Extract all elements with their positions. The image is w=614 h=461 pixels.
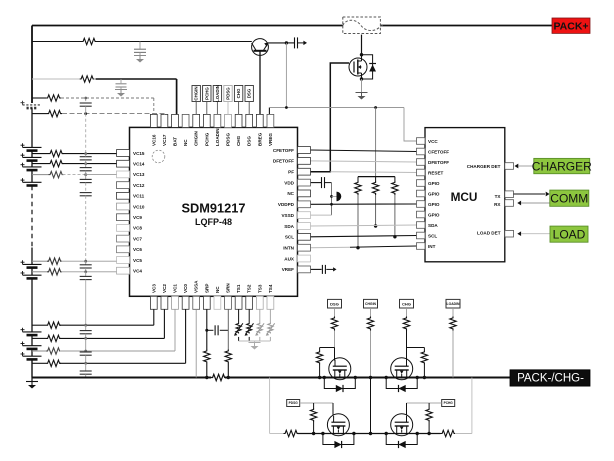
svg-text:PF: PF [288,170,294,175]
junction VREG/emitter drop [285,106,288,109]
junction INT pull-up [356,246,359,249]
battery cell B8 [23,332,42,335]
pin stub CHARGER DET [505,163,514,170]
transistor Q3 DSG FET [329,358,351,380]
wire pull-up bus [358,176,395,178]
pin INTN [298,244,311,251]
svg-text:PACK-/CHG-: PACK-/CHG- [517,373,584,385]
svg-text:LOAD DET: LOAD DET [477,230,501,235]
junction FET source [360,77,363,80]
wire to ground [31,378,33,382]
pin MCU VCC [417,138,426,145]
wire CHGIN label [370,308,372,317]
wire BREG supply rail [32,41,82,43]
junction test point [330,195,333,198]
net label CHGIN CHGIN [364,299,378,308]
thermistor RT4 [266,323,275,336]
transistor Q4 CHG FET [391,358,413,380]
wire CHARGER to MCU [518,165,534,167]
wire VDD pin [311,182,322,184]
svg-text:CFETOFF: CFETOFF [273,148,294,153]
wire SRP [206,309,208,349]
wire PACK- rail segment [32,377,211,379]
junction R29/lower rail [427,432,430,435]
wire up to VC0 pin [185,309,187,363]
wire [85,171,87,175]
thermistor RT3 [255,323,264,336]
junction cap column / VC17 [84,112,87,115]
wire SCL to MCU [311,236,417,237]
resistor R24 gate-source [421,351,427,365]
wire VC13 tap [32,174,49,176]
pin TS1 [235,296,242,309]
wire VC3 row [60,324,154,326]
wire LOADIN to rail [452,331,454,378]
wire cap column dashed [85,196,87,261]
wire to VC17 pin [163,113,165,116]
wire VC16 dashed [61,97,154,99]
node LOAD terminal [550,226,588,242]
svg-text:TS1: TS1 [236,284,241,293]
wire R18 to rail [206,364,208,378]
svg-text:GPIO: GPIO [428,202,440,207]
arrow test point VREG [303,41,307,45]
wire bypass riser right [471,378,473,434]
junction cap column / VC13 [84,173,87,176]
wire [455,433,472,435]
capacitor C5 BAT [116,84,127,87]
pin CFETOFF [298,147,311,154]
wire [85,355,87,363]
arrow into LOAD DET [517,231,521,236]
wire VC2 tap [32,337,46,339]
wire VREG distribution [269,107,404,109]
wire Q1 emitter to VREG node [268,42,286,44]
svg-text:VC16: VC16 [151,134,156,146]
pin LOADIN [214,114,221,127]
svg-text:VC3: VC3 [151,284,156,293]
pin VC7 [117,235,130,242]
pin VC0 [182,296,189,309]
junction FET drain / fuse [360,53,363,56]
wire C4 out [326,268,333,270]
svg-text:DSG: DSG [247,88,252,98]
net label CHG CHG [400,299,414,308]
ground under C5 [115,90,127,97]
wire VC4 to pin [61,271,117,273]
pin NC [182,114,189,127]
pin PF [298,168,311,175]
net label PDSG PDSG [287,400,300,407]
node COMM terminal [550,190,589,206]
resistor R27 precharge [441,430,456,436]
junction diode/lower rail [352,432,355,435]
svg-text:PCHG: PCHG [444,401,454,405]
wire stack segment [31,151,33,158]
pin MCU INT [417,243,426,250]
wire TS1 bottom [238,337,240,341]
wire VC14 tap [32,163,49,165]
wire INTN to MCU INT (gray) [311,246,351,249]
wire FET source to ground [361,79,363,92]
wire stack segment [31,161,33,167]
pin VC15 [117,150,130,157]
wire Q1 base to BREG pin [259,51,261,115]
pin VC14 [117,160,130,167]
body diode Q3 [324,378,355,393]
pin SRP [203,296,210,309]
wire thermistor common [239,340,271,342]
wire TS2 bottom [248,337,250,341]
svg-text:VCC: VCC [428,139,438,144]
wire up to VC2 pin [163,309,165,338]
wire to R29 [428,403,430,408]
pin SRN [225,296,232,309]
junction SRP/rail [205,376,208,379]
junction SRP/C16 [205,329,208,332]
ground battery negative [26,382,38,389]
svg-text:DFETOFF: DFETOFF [273,159,294,164]
resistor R11 VC5 [47,258,62,264]
svg-text:CHGIN: CHGIN [194,131,199,146]
net label PCHG PCHG [442,400,455,407]
svg-text:VC4: VC4 [133,269,142,274]
svg-text:LQFP-48: LQFP-48 [195,217,232,227]
svg-text:CHG: CHG [236,135,241,146]
pin stub LOAD DET [505,230,514,237]
wire R28 to lower rail [313,422,315,434]
wire [85,363,87,371]
wire VC0 row [60,362,186,364]
svg-text:VDD: VDD [284,180,294,185]
pin VC13 [117,171,130,178]
junction VDDPD row [330,203,333,206]
svg-text:VC9: VC9 [133,215,142,220]
wire up to VC3 pin [153,309,155,325]
wire LOADIN label to pin [216,102,218,115]
svg-text:LOADIN: LOADIN [447,302,461,306]
capacitor C15 balance [80,371,92,374]
pin MCU GPIO [417,211,426,218]
svg-text:TX: TX [495,194,502,199]
ground under C1 [134,56,146,63]
pin MCU SDA [417,222,426,229]
pin MCU CFETOFF [417,148,426,155]
pin SDA [298,223,311,230]
svg-text:BREG: BREG [257,132,262,146]
junction diode/lower rail [321,432,324,435]
pin VDD [298,179,311,186]
capacitor C11 balance [80,265,92,268]
wire lower rail [298,433,441,435]
wire gate to FET2 [406,331,408,361]
svg-text:AUX: AUX [284,256,295,261]
node CHARGER terminal [532,158,592,173]
svg-text:SDA: SDA [428,223,438,228]
capacitor C7 balance [80,157,92,160]
pin MCU GPIO [417,180,426,187]
wire C3 to VSS [325,182,332,184]
svg-text:CHARGER DET: CHARGER DET [467,164,501,169]
wire VC17 tap [32,113,47,115]
wire BAT cap stub [120,79,122,83]
wire decoupling vertical [331,183,333,216]
resistor R22 CHGIN [367,317,373,331]
wire [85,175,87,180]
pin VC6 [117,246,130,253]
wire PCHG label to pin [206,102,208,115]
resistor R13 VC3 [46,322,61,328]
svg-text:SCL: SCL [428,233,437,238]
junction VREG/pull-up rail [374,106,377,109]
svg-text:PCHG: PCHG [204,132,209,146]
wire PACK- rail segment [225,377,510,379]
arrow test point VREF [333,267,336,271]
wire stack bottom to rail [31,359,33,377]
wire gate to FET1 [334,348,336,361]
wire BAT rail to pin [96,78,177,80]
wire gate [334,331,336,348]
junction SCL pull-up [393,235,396,238]
wire stack segment [31,335,33,346]
net label PCHG PCHG [203,86,211,102]
thermistor RT1 [234,323,243,336]
resistor R21 gate-source [316,351,322,365]
wire [85,268,87,272]
junction column/VC5 [84,260,87,263]
body diode Q5 [323,434,354,449]
wire LOAD to LOAD DET [521,233,550,235]
junction column/VC2 [84,337,87,340]
pin SCL [298,233,311,240]
svg-text:DSG: DSG [247,136,252,146]
wire C2 to test point [298,42,304,44]
wire stack segment [31,278,33,332]
wire PF to MCU RESET [330,171,416,174]
junction R28/lower rail [312,432,315,435]
wire PDSG label to pin [227,102,229,115]
svg-text:LOADIN: LOADIN [215,128,220,146]
wire R2 to INT row [357,195,359,248]
wire [85,334,87,339]
junction VREG node [285,41,288,44]
pin MCU RESET [417,169,426,176]
wire VDDPD to MCU GPIO [311,203,417,205]
pin MCU DFETOFF [417,159,426,166]
svg-text:TS3: TS3 [257,284,262,293]
wire to R24 [407,347,425,349]
resistor R2 pull-up INT [355,181,361,195]
arrow into CHARGER DET [515,164,519,169]
resistor R28 gate-source [310,408,316,422]
wire stack segment [31,108,33,147]
op-amp U2 MCU body [425,128,505,262]
wire to Q1 collector [96,41,252,43]
pin TS4 [267,296,274,309]
resistor R18 SRP [204,350,210,364]
svg-text:VC12: VC12 [133,183,145,188]
net label LOADIN LOADIN [213,85,221,102]
wire VC14 to pin [63,163,117,165]
wire to rail [85,374,87,377]
wire CFETOFF to MCU [311,150,417,152]
pin MCU GPIO [417,201,426,208]
pin PDSG [225,114,232,127]
wire bypass riser left [269,378,271,434]
wire VREG pin up [268,108,270,115]
node PACK-/CHG- terminal [510,370,590,386]
pin AUX [298,255,311,262]
wire VC1 row [60,350,175,352]
pin VC12 [117,182,130,189]
wire cap column [85,280,87,326]
wire pull-up rail [375,108,377,177]
battery cell B5 [23,182,42,185]
capacitor C8 balance [80,168,92,171]
resistor R7 VC17 [47,110,62,116]
wire [375,177,377,181]
wire VREG to MCU VCC [404,108,417,142]
battery cell B7 [23,275,42,278]
wire [254,341,256,343]
svg-text:TS2: TS2 [247,284,252,293]
pin VC4 [117,267,130,274]
pin VC5 [117,257,130,264]
svg-text:DFETOFF: DFETOFF [428,160,449,165]
pin TS2 [246,296,253,309]
resistor R15 VC1 [46,348,61,354]
wire to connector [332,195,337,197]
wire VC5 tap [32,260,47,262]
svg-text:VSSA: VSSA [194,280,199,293]
pin VC16 [150,114,157,127]
body diode of Q2 [362,55,377,79]
wire [357,177,359,181]
junction CHGIN/lower rail [369,432,372,435]
wire up to VC1 pin [174,309,176,351]
capacitor C2 VREG output [295,37,298,48]
svg-text:SDM91217: SDM91217 [181,201,245,216]
resistor R6 VC16 [46,95,61,101]
svg-text:GPIO: GPIO [428,181,440,186]
svg-text:CHGIN: CHGIN [194,86,199,100]
op-amp U1 SDM91217 AFE IC body [130,127,298,296]
svg-text:VC1: VC1 [173,284,178,293]
wire CHG label to pin [238,102,240,115]
wire C16 to SRN [220,329,229,331]
transistor Q5 PDSG FET [327,414,349,436]
wire stack dashed gap [31,186,33,248]
wire VC0 tap [32,362,46,364]
pin NC [214,296,221,309]
wire fuse to FET drain [361,35,363,55]
resistor R20 DSG gate [331,317,337,331]
pin NC [298,190,311,197]
transistor Q2 fuse-blow MOSFET [349,55,367,79]
junction column/VC0 [84,362,87,365]
pin VC8 [117,225,130,232]
capacitor C16 sense filter [215,325,218,335]
resistor R25 LOADIN [450,317,456,331]
wire DSG label [334,308,336,317]
capacitor C13 balance [80,331,92,334]
transistor Q1 NPN regulator [252,39,269,56]
svg-text:VREF: VREF [282,267,294,272]
wire battery positive to PACK+ rail [31,26,33,104]
wire fuse exit [380,25,383,28]
wire R29 to lower rail [428,422,430,434]
svg-text:SCL: SCL [285,235,294,240]
svg-text:LOAD: LOAD [553,228,586,242]
transistor Q6 PCHG FET [391,414,413,436]
wire to C16 [207,329,214,331]
wire [319,348,321,351]
resistor R8 VC15 [49,150,64,156]
resistor R4 pull-up SCL [392,181,398,195]
svg-text:RESET: RESET [428,170,444,175]
wire [85,261,87,264]
wire VC16 tap [32,97,46,99]
svg-text:TS4: TS4 [268,284,273,293]
wire VC13 dashed [63,174,86,176]
net label PDSG PDSG [224,86,232,102]
thermistor RT2 [245,323,254,336]
junction diode/rail [385,376,388,379]
battery cell B3 [23,157,42,160]
capacitor C6 balance [80,103,92,106]
junction SDA pull-up [374,224,377,227]
svg-text:GPIO: GPIO [428,212,440,217]
resistor R29 gate-source [426,408,432,422]
wire cap column dashed [85,183,87,193]
svg-text:VC11: VC11 [133,194,145,199]
wire CHGIN upper [370,331,372,378]
capacitor C12 balance [80,276,92,279]
svg-text:PDSG: PDSG [289,401,299,405]
wire VC3 tap [32,324,46,326]
resistor R3 pull-up SDA [372,181,378,195]
wire down to VC16 pin [153,98,155,114]
wire VREF pin [311,268,322,270]
svg-text:VDDPD: VDDPD [278,202,295,207]
pin VC17 [161,114,168,127]
battery cell B6 [23,264,42,267]
svg-text:VC10: VC10 [133,204,145,209]
capacitor C3 VDD [322,177,325,188]
svg-text:BAT: BAT [173,137,178,146]
wire SDA to MCU [311,225,417,226]
pin DSG [246,114,253,127]
pin VREF [298,266,311,273]
svg-text:VC0: VC0 [183,284,188,293]
junction column/VC1 [84,350,87,353]
wire VC15 tap [32,153,49,155]
wire gate to FET3 [332,403,334,416]
net label DSG DSG [328,299,342,308]
svg-text:SRN: SRN [226,283,231,293]
wire DFETOFF to MCU [311,161,417,162]
wire [85,338,87,351]
junction R21/rail [318,376,321,379]
resistor R10 VC13 [49,171,64,177]
svg-text:NC: NC [183,139,188,146]
svg-text:VSSD: VSSD [281,213,294,218]
svg-text:SRP: SRP [204,284,209,293]
svg-text:NC: NC [215,286,220,293]
wire to R28 [313,403,315,408]
pin VC3 [150,296,157,309]
wire [85,325,87,330]
